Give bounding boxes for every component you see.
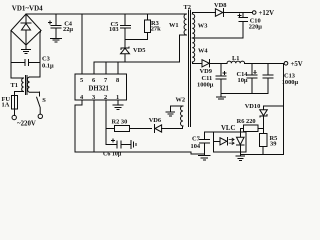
resistor R3 <box>125 14 161 39</box>
winding W4 of T2 <box>192 38 208 63</box>
wire: top DC rail <box>26 13 187 15</box>
svg-text:22μ: 22μ <box>63 26 73 33</box>
bridge rectifier VD1~VD4 <box>11 14 41 45</box>
wire: bridge left leg down <box>11 31 22 79</box>
zener diode VD10 <box>245 103 284 133</box>
svg-text:10μ: 10μ <box>238 77 248 84</box>
wire: output bottom rail <box>221 93 268 95</box>
inductor L1 <box>221 55 284 64</box>
svg-text:+12V: +12V <box>259 10 275 17</box>
svg-text:W3: W3 <box>198 23 208 30</box>
svg-text:VD1~VD4: VD1~VD4 <box>12 5 43 13</box>
switch S <box>37 92 47 118</box>
svg-text:W1: W1 <box>169 22 179 29</box>
winding W2 of T2 <box>170 96 185 126</box>
svg-text:VD5: VD5 <box>133 47 145 54</box>
wire: pin7 drop <box>105 62 107 74</box>
svg-text:W2: W2 <box>176 96 186 103</box>
zener diode VD5 <box>121 39 146 62</box>
svg-text:W4: W4 <box>198 48 208 55</box>
svg-text:+5V: +5V <box>291 61 303 68</box>
resistor R2 <box>106 119 151 132</box>
capacitor C7 <box>191 132 214 155</box>
capacitor C4 <box>48 14 73 42</box>
svg-text:103: 103 <box>109 26 119 33</box>
wire: pin2 down <box>105 100 107 144</box>
svg-text:VD6: VD6 <box>149 117 162 124</box>
winding W1 of T2 <box>169 14 187 62</box>
fuse FU 1A <box>2 96 18 120</box>
capacitor C10 <box>238 13 262 39</box>
wire: pin3 down <box>93 100 95 152</box>
wire: pin8 drop <box>117 62 119 74</box>
ground below bridge <box>22 45 31 54</box>
capacitor C13 <box>263 63 298 93</box>
svg-text:C3: C3 <box>42 56 50 63</box>
svg-text:220μ: 220μ <box>249 23 263 30</box>
rotated ground right of C6 <box>131 140 136 148</box>
svg-text:8: 8 <box>116 77 119 84</box>
svg-text:VLC: VLC <box>221 125 235 132</box>
wire: winding tap to C10 <box>193 37 243 39</box>
svg-text:R6 220: R6 220 <box>237 118 256 125</box>
svg-text:1000μ: 1000μ <box>197 82 214 89</box>
svg-text:1000μ: 1000μ <box>282 79 299 86</box>
ground under VLC <box>236 152 245 160</box>
svg-text:C6 10μ: C6 10μ <box>103 151 122 157</box>
capacitor C3 <box>11 56 54 70</box>
ground at W2 <box>166 112 175 116</box>
terminal +12V <box>252 10 274 17</box>
svg-text:27k: 27k <box>151 25 161 32</box>
wire: VLC top to R6 <box>239 128 241 132</box>
svg-text:104: 104 <box>191 143 201 150</box>
resistor R6 <box>237 118 264 132</box>
svg-text:S: S <box>42 97 46 104</box>
winding W3 of T2 <box>192 13 207 39</box>
svg-text:1A: 1A <box>2 102 10 109</box>
wire: pin4 to bottom rail <box>75 100 205 154</box>
svg-text:T1: T1 <box>11 82 18 89</box>
wire: pin5 riser <box>81 14 83 74</box>
ground at pin 1 <box>113 100 123 109</box>
IC U1 DH321 <box>75 74 127 101</box>
capacitor C11 <box>197 63 226 99</box>
terminal +5V <box>284 61 303 68</box>
wire: bridge right leg down <box>30 31 42 78</box>
wire: drain bus <box>94 61 179 63</box>
wire: pin6 drop <box>93 62 95 74</box>
svg-text:DH321: DH321 <box>89 86 110 93</box>
diode VD6 <box>149 117 183 133</box>
wire: sampling drop from +5V <box>240 63 283 154</box>
ground at C7 <box>199 156 211 160</box>
svg-text:39: 39 <box>270 141 276 148</box>
capacitor C5 <box>109 14 131 39</box>
svg-text:VD10: VD10 <box>245 103 261 110</box>
diode VD8 <box>192 2 252 16</box>
diode VD9 <box>200 60 221 75</box>
capacitor C14 <box>237 63 257 93</box>
transformer T1 <box>11 76 40 97</box>
svg-text:T2: T2 <box>184 4 191 11</box>
svg-text:~220V: ~220V <box>17 121 36 128</box>
svg-text:R2 30: R2 30 <box>112 119 128 126</box>
svg-text:5: 5 <box>80 77 83 84</box>
svg-text:VD8: VD8 <box>214 2 226 9</box>
optocoupler VLC <box>214 125 247 152</box>
capacitor C6 <box>103 139 131 157</box>
resistor R5 <box>259 133 277 154</box>
transformer T2 core <box>184 4 191 127</box>
svg-text:0.1μ: 0.1μ <box>42 63 54 70</box>
